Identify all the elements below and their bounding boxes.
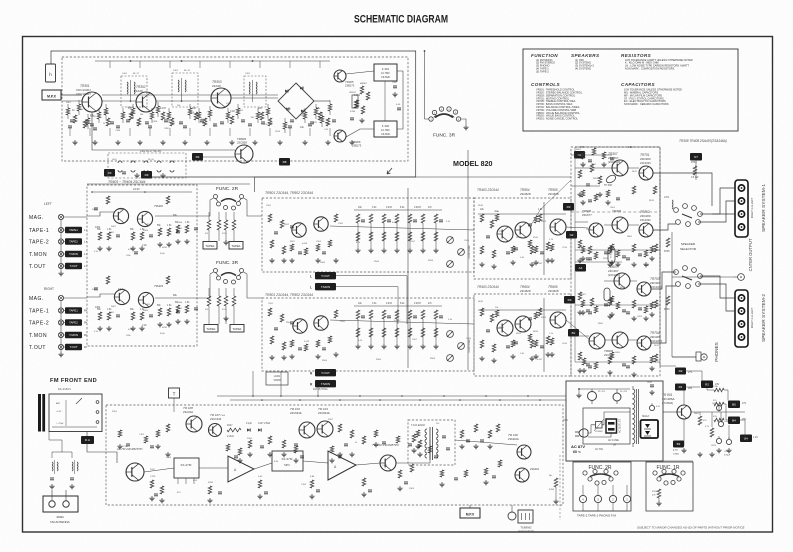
svg-text:R621: R621 — [591, 164, 597, 166]
svg-text:C614: C614 — [562, 343, 568, 345]
bottom IF dashed enclosure — [106, 405, 563, 505]
transistor TR503 upper — [497, 226, 513, 242]
driver dashed enclosure lower — [474, 294, 571, 376]
svg-text:47μF: 47μF — [160, 253, 166, 255]
transistor TR702 — [639, 223, 653, 237]
svg-text:SUBJECT TO MINOR CHANGES AS-I: SUBJECT TO MINOR CHANGES AS-IS) OF PARTS… — [637, 526, 746, 530]
svg-text:TAPE2: TAPE2 — [69, 321, 78, 325]
wire chain 4 — [303, 461, 328, 463]
svg-text:TR308 TR408 2SA497(2SA346A): TR308 TR408 2SA497(2SA346A) — [679, 139, 727, 143]
label driver types upper — [477, 188, 559, 196]
IF strip extra labels — [66, 102, 329, 133]
wire selector to strip1 a — [700, 188, 735, 214]
svg-text:INDICATOR: INDICATOR — [518, 530, 534, 534]
svg-text:T401: T401 — [173, 70, 179, 72]
transistor TR107 — [209, 424, 222, 437]
tone network upper RC ladder — [354, 207, 443, 253]
svg-text:27V: 27V — [688, 371, 693, 374]
thermistor TH301 — [604, 174, 617, 187]
tone amp dashed enclosure left upper — [262, 198, 474, 272]
svg-text:4.7k: 4.7k — [202, 122, 207, 125]
svg-text:0.033: 0.033 — [386, 303, 392, 305]
wire func2r right — [244, 198, 263, 216]
label TR606 — [604, 349, 614, 357]
wire strip1 gnd — [712, 213, 735, 215]
svg-text:R131: R131 — [208, 482, 214, 484]
transistor TR104 — [317, 421, 333, 437]
speaker terminal strip 2 — [735, 290, 748, 347]
wire center out feed — [672, 276, 733, 278]
power amp wire mesh — [571, 147, 660, 362]
svg-text:R: R — [84, 333, 86, 337]
svg-text:R605: R605 — [627, 236, 633, 238]
legend box — [523, 49, 738, 131]
IF module IC101 — [174, 458, 199, 484]
filter mid components — [349, 81, 401, 123]
FUNC 1R resistor — [652, 489, 662, 506]
FUNC 3R selector mid — [214, 260, 244, 284]
svg-text:2.2k: 2.2k — [142, 324, 147, 327]
svg-text:NON MARK : CERAMIC CAPACITORS: NON MARK : CERAMIC CAPACITORS — [624, 102, 669, 106]
tone network lower RC ladder — [354, 303, 443, 349]
svg-text:23C828: 23C828 — [520, 192, 531, 196]
transistor TR303 — [211, 88, 231, 108]
input jack TAPE-2 left — [29, 238, 87, 245]
label TR105 — [117, 447, 144, 451]
svg-text:T.OUT: T.OUT — [29, 264, 46, 270]
filter cap C811 — [712, 403, 722, 411]
wire preamp left out — [155, 215, 197, 217]
svg-text:R410: R410 — [162, 247, 168, 249]
svg-text:C302: C302 — [78, 109, 84, 111]
ratio detector diode bridge — [278, 83, 314, 119]
wire plug to switch — [588, 425, 596, 433]
label driver types lower — [477, 285, 559, 293]
IF strip value labels — [72, 94, 361, 129]
svg-text:RESISTORS: RESISTORS — [621, 53, 652, 58]
wire chain 5 — [356, 463, 380, 465]
svg-text:SCHEMATIC DIAGRAM: SCHEMATIC DIAGRAM — [354, 14, 448, 26]
MPX transformer T101 — [425, 427, 438, 460]
svg-text:C817: C817 — [647, 382, 653, 384]
bus func2r to amp — [255, 177, 572, 192]
label TR801 — [662, 393, 675, 405]
driver B+ rail lower — [543, 298, 545, 372]
transistor TR605 lower — [550, 312, 566, 328]
svg-text:TAPE-1: TAPE-1 — [29, 228, 49, 234]
svg-text:C605: C605 — [615, 352, 621, 354]
svg-text:R313: R313 — [275, 131, 281, 133]
dropper resistor R802 — [705, 426, 714, 437]
label TR703 — [650, 277, 662, 289]
opamp A101 — [228, 456, 254, 482]
bus mid vertical 1 — [407, 188, 409, 368]
svg-text:T402: T402 — [245, 73, 251, 75]
svg-text:0.0047: 0.0047 — [414, 207, 422, 209]
svg-text:C310: C310 — [226, 103, 232, 105]
svg-text:R615: R615 — [603, 258, 609, 260]
FUNC 2R selector — [214, 186, 244, 210]
svg-text:4.7V: 4.7V — [673, 450, 678, 452]
tape out box R TOUT — [310, 369, 336, 376]
driver dashed enclosure upper — [474, 198, 571, 279]
svg-text:47µF: 47µF — [118, 208, 124, 211]
bus supply left — [563, 419, 568, 421]
transistor TR305 — [334, 70, 346, 82]
label TR607 — [608, 265, 620, 277]
svg-text:47k: 47k — [205, 309, 208, 311]
wire preamp rail — [92, 191, 192, 193]
svg-text:0.047: 0.047 — [128, 329, 134, 331]
supply net box B5 — [728, 401, 740, 409]
svg-text:FUNC. 1R: FUNC. 1R — [656, 465, 679, 471]
svg-text:R704: R704 — [691, 162, 697, 164]
wire tuning lamp up — [511, 505, 513, 512]
svg-text:23C828: 23C828 — [520, 289, 531, 293]
svg-text:23C828: 23C828 — [548, 192, 559, 196]
svg-text:R: R — [84, 309, 86, 313]
svg-text:TR 106: TR 106 — [508, 433, 518, 437]
mechanical filter F301 — [374, 64, 397, 81]
svg-text:F 302: F 302 — [382, 124, 390, 128]
net box N7 — [690, 153, 702, 161]
IF module IC102 — [272, 451, 303, 471]
net box D.A — [81, 436, 94, 444]
svg-text:FM ANTENNA: FM ANTENNA — [50, 520, 69, 524]
label antenna — [50, 515, 69, 524]
wire selector to strip2 b — [698, 284, 735, 311]
wire T box down — [173, 398, 175, 412]
svg-text:MAG.: MAG. — [29, 215, 44, 221]
tone upper small parts — [268, 214, 338, 263]
svg-text:FILTER: FILTER — [381, 76, 390, 79]
label TR305 — [345, 80, 355, 88]
label TR701 — [640, 153, 651, 165]
svg-text:C505: C505 — [340, 321, 346, 323]
transistor TR608 — [589, 333, 605, 349]
svg-text:10.7MC: 10.7MC — [381, 72, 390, 75]
rectifier bridge — [641, 420, 659, 438]
wire antenna to coils — [52, 452, 72, 458]
svg-text:27V: 27V — [742, 402, 747, 405]
wire preamp right signal — [87, 294, 115, 297]
wire selector to strip1 b — [698, 201, 735, 222]
transistor TR307 — [612, 160, 628, 176]
svg-text:C501: C501 — [266, 205, 272, 207]
transistor TR502 lower — [314, 316, 328, 330]
svg-text:T.OUT: T.OUT — [69, 345, 77, 349]
svg-text:TAPE1: TAPE1 — [69, 228, 78, 232]
transistor TR309 — [612, 217, 628, 233]
svg-text:C106: C106 — [301, 484, 307, 486]
AGC coil subbox L402 — [108, 150, 186, 178]
wire tuner to mpx box — [87, 444, 117, 463]
svg-text:R109: R109 — [409, 488, 415, 490]
test point T box — [169, 388, 180, 398]
label TR302 — [134, 85, 146, 93]
svg-text:10.7MC: 10.7MC — [381, 129, 390, 132]
svg-text:R303: R303 — [91, 116, 97, 118]
net box A2 — [575, 264, 586, 272]
IF transformer L301 — [121, 73, 147, 107]
bias diodes vertical — [604, 247, 615, 301]
svg-text:23C1344: 23C1344 — [210, 417, 222, 421]
svg-text:L402 RL-17 (RL-26): L402 RL-17 (RL-26) — [140, 150, 161, 153]
bus drop 3 — [317, 387, 319, 396]
svg-text:R311: R311 — [238, 110, 244, 112]
phones jack — [696, 352, 707, 361]
svg-text:VR309: VR309 — [273, 380, 281, 382]
wire cap feeds — [684, 405, 729, 446]
svg-text:2.2k: 2.2k — [142, 244, 147, 247]
net box R3 c — [141, 171, 152, 179]
svg-text:POWER: POWER — [595, 431, 603, 433]
svg-text:C312: C312 — [263, 124, 269, 126]
label TR307 — [608, 152, 620, 164]
transistor TR306 — [334, 130, 346, 142]
speaker selector text — [680, 242, 697, 251]
tape head box right1 — [204, 325, 218, 333]
svg-text:A2: A2 — [579, 266, 583, 270]
label FM FRONT END — [50, 378, 97, 391]
svg-text:R706: R706 — [664, 309, 670, 311]
svg-text:TAPE1: TAPE1 — [232, 327, 242, 331]
svg-text:TAPE1: TAPE1 — [231, 244, 241, 248]
svg-text:C609: C609 — [637, 316, 643, 318]
svg-text:(23C1030): (23C1030) — [650, 285, 662, 289]
svg-text:60 ∿: 60 ∿ — [573, 450, 582, 454]
preamp left NFB cap — [134, 252, 138, 254]
muting level box — [266, 372, 288, 385]
wire bottom signal chain — [144, 468, 174, 472]
transistor TR105 oscillator — [126, 463, 144, 481]
svg-text:PHONES: PHONES — [714, 342, 719, 361]
bus right vertical phones — [671, 232, 673, 357]
svg-text:R103: R103 — [166, 457, 172, 459]
transistor TR403 left — [113, 208, 128, 223]
tone pots lower — [447, 331, 471, 362]
svg-text:C509: C509 — [466, 338, 472, 340]
svg-text:C507: C507 — [412, 339, 418, 341]
FUNC 2R switch enclosure — [573, 462, 631, 511]
supply net box D2 — [675, 368, 686, 375]
legend FUNCTION column — [531, 53, 558, 73]
svg-text:28V: 28V — [688, 387, 693, 390]
stereo indicator dashed subbox — [408, 420, 455, 465]
svg-text:L1001: L1001 — [274, 376, 281, 378]
svg-text:27kB: 27kB — [350, 111, 356, 113]
svg-text:B3: B3 — [677, 442, 681, 446]
IF transformer L302 — [172, 70, 198, 107]
wire driver to output lower — [566, 320, 590, 340]
bus drop 2 — [280, 371, 282, 396]
svg-text:470k: 470k — [222, 309, 226, 311]
svg-text:23A49: 23A49 — [134, 89, 143, 93]
opamp A102 — [328, 451, 356, 480]
svg-text:T.MON: T.MON — [69, 333, 78, 337]
wire ps b-rail — [663, 411, 677, 413]
svg-text:R101: R101 — [112, 411, 118, 413]
upper output parts — [577, 147, 699, 197]
svg-text:R305: R305 — [128, 107, 134, 109]
IF strip ground group — [72, 140, 354, 145]
label diode values — [246, 423, 270, 425]
svg-text:FUNC. 3R: FUNC. 3R — [433, 133, 456, 139]
secondary cap C817 — [647, 382, 655, 395]
svg-text:R616: R616 — [516, 333, 522, 335]
svg-text:R508: R508 — [430, 358, 436, 360]
transistor TR701 — [639, 166, 653, 180]
wire lamp rail — [576, 388, 630, 398]
input jack T.MON left — [29, 251, 87, 258]
svg-text:L: L — [310, 275, 312, 279]
driver lower rail — [478, 309, 566, 311]
input jack MAG. left — [29, 214, 87, 221]
svg-text:T.MON: T.MON — [69, 252, 78, 256]
wire IF top to rotary — [424, 51, 426, 119]
svg-text:C123: C123 — [150, 476, 156, 478]
svg-text:0.033: 0.033 — [302, 243, 308, 245]
transistor TR403 right — [114, 289, 129, 304]
svg-text:TAPE1: TAPE1 — [206, 327, 216, 331]
svg-text:PL-701: PL-701 — [598, 391, 606, 393]
wire amp to selector upper — [653, 173, 712, 206]
svg-text:R3: R3 — [568, 298, 572, 302]
supply net box B4 a — [728, 417, 740, 425]
svg-text:R407: R407 — [111, 306, 117, 308]
svg-text:FUNC. 2R: FUNC. 2R — [588, 465, 611, 471]
svg-text:R407: R407 — [111, 226, 117, 228]
wire func3r left — [197, 272, 214, 298]
wire MPX to TR301 — [61, 94, 82, 96]
transistor TR106 — [517, 445, 531, 459]
label TR704 — [650, 331, 662, 343]
wire chain 3 — [254, 463, 272, 469]
svg-text:(23C1030): (23C1030) — [608, 273, 620, 277]
svg-text:R603: R603 — [593, 178, 599, 180]
svg-text:0.033: 0.033 — [386, 207, 392, 209]
ps grounds — [681, 448, 731, 457]
svg-text:0.047: 0.047 — [537, 263, 543, 265]
muting resistor 2.2k — [227, 425, 241, 438]
left muting dropper — [549, 455, 560, 520]
supply net box R2 — [701, 381, 713, 389]
svg-text:AC SW: AC SW — [595, 448, 604, 451]
wire AGC to R4 — [203, 156, 235, 158]
transistor TR301 — [82, 92, 102, 112]
mechanical filter F302 — [374, 121, 397, 137]
FUNC 1R bottom switch — [653, 465, 685, 485]
svg-text:300Ω: 300Ω — [56, 515, 64, 519]
wire func3r right — [244, 272, 263, 298]
supply voltage labels — [673, 371, 758, 456]
svg-text:R404: R404 — [143, 230, 149, 232]
svg-text:LEFT: LEFT — [44, 202, 52, 206]
svg-text:R105: R105 — [247, 438, 253, 440]
bus preamp top rail — [87, 183, 250, 185]
svg-text:R508: R508 — [428, 260, 434, 262]
label TR301 — [76, 84, 91, 96]
svg-text:SPEAKER SYSTEM-1: SPEAKER SYSTEM-1 — [761, 184, 767, 232]
svg-text:23C1030: 23C1030 — [640, 218, 651, 222]
svg-text:2.2k: 2.2k — [170, 122, 175, 125]
svg-text:C314: C314 — [300, 115, 306, 117]
svg-text:23C497: 23C497 — [608, 269, 619, 273]
svg-text:TR403 23C644: TR403 23C644 — [477, 285, 499, 289]
wire func boxes top rail — [566, 460, 693, 462]
transistor TR704 — [637, 336, 651, 350]
svg-text:100: 100 — [258, 107, 263, 110]
svg-text:T-101 EZ102: T-101 EZ102 — [411, 424, 425, 427]
wire rotary left stub — [425, 118, 429, 120]
bottom IF lower parts — [149, 464, 413, 503]
transistor TR108 — [186, 416, 202, 432]
func2r resistor ladder — [205, 212, 236, 245]
svg-text:C409: C409 — [145, 224, 151, 226]
svg-text:R801: R801 — [694, 413, 700, 415]
svg-text:R: R — [84, 345, 86, 349]
transistor TR103 — [299, 422, 315, 438]
svg-text:AC OUTLET: AC OUTLET — [619, 419, 622, 434]
svg-text:TAPE-2 TAPE-1 PHONO F.M: TAPE-2 TAPE-1 PHONO F.M — [577, 514, 616, 518]
svg-text:TAPE-2: TAPE-2 — [29, 240, 49, 246]
svg-text:R607: R607 — [581, 294, 587, 296]
svg-text:TR501 23C644, TR502 23C644: TR501 23C644, TR502 23C644 — [265, 293, 313, 297]
svg-text:47k: 47k — [205, 233, 208, 235]
svg-text:0.02: 0.02 — [230, 110, 235, 113]
wire switch to transformer — [602, 412, 630, 425]
speaker terminal strip 1 — [735, 180, 748, 237]
svg-text:R750: R750 — [652, 491, 658, 493]
svg-text:L: L — [310, 286, 312, 290]
tape out box L TMON — [310, 283, 336, 290]
transistor TR607 — [614, 273, 630, 289]
net box N1 — [574, 151, 585, 159]
MPX subbox parts2 — [411, 434, 450, 457]
filter cap C814 — [724, 437, 732, 456]
svg-text:0.0047: 0.0047 — [414, 303, 422, 305]
driver interior extra lower — [495, 310, 554, 359]
svg-text:23A49: 23A49 — [212, 84, 221, 88]
svg-text:MODEL 820: MODEL 820 — [453, 159, 493, 168]
svg-text:R617: R617 — [620, 287, 626, 289]
svg-text:C507: C507 — [410, 241, 416, 243]
output coil L701 — [664, 197, 673, 209]
transistor TR501 upper — [292, 223, 306, 237]
svg-text:L701: L701 — [664, 197, 670, 199]
svg-text:(5) TAPE-2: (5) TAPE-2 — [536, 69, 549, 73]
svg-text:TAPE-2: TAPE-2 — [29, 321, 49, 327]
svg-text:(4) SYSTEM2: (4) SYSTEM2 — [575, 67, 592, 71]
net box B2 a — [568, 329, 579, 337]
svg-text:0.1μF: 0.1μF — [246, 423, 253, 425]
func3r resistor ladder — [205, 288, 236, 324]
svg-text:TAPE2: TAPE2 — [69, 240, 78, 244]
svg-text:220: 220 — [192, 107, 197, 110]
net box R4 top — [192, 153, 203, 161]
svg-text:C506: C506 — [316, 241, 322, 243]
input jack MAG. right — [29, 295, 87, 302]
connector MPX out — [460, 508, 480, 518]
svg-text:R2: R2 — [705, 382, 709, 386]
muting diode D102 — [258, 428, 261, 431]
svg-text:PL-702: PL-702 — [620, 391, 628, 393]
power amp extra labels — [576, 149, 660, 354]
tone lower small parts — [268, 308, 338, 360]
svg-text:100k: 100k — [95, 306, 101, 309]
svg-text:T.MON: T.MON — [29, 333, 47, 339]
svg-text:T.MON: T.MON — [321, 382, 330, 386]
